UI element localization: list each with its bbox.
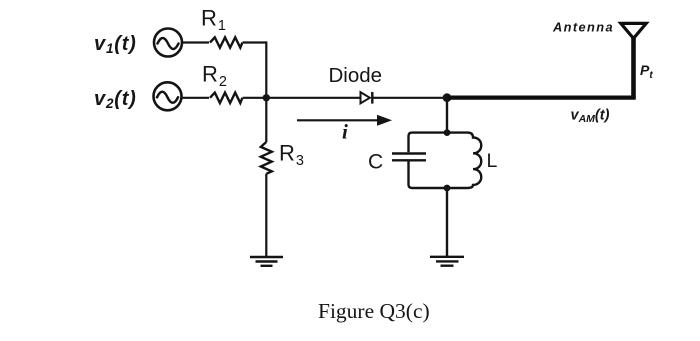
wire V1 to R1 (182, 41, 209, 43)
resistor R1 (210, 37, 242, 47)
svg-text:Diode: Diode (329, 64, 383, 87)
wire diode to node B (372, 97, 447, 99)
wire tank to ground (446, 188, 448, 256)
wire node B down to tank (446, 98, 448, 133)
resistor R2 (210, 93, 242, 103)
wire R1 to corner (243, 41, 267, 43)
svg-text:Pt: Pt (640, 62, 653, 81)
thick wire node B to antenna (447, 95, 636, 99)
wire corner down to node (265, 41, 267, 97)
wire V2 to R2 (182, 97, 210, 99)
wire R2 to diode (243, 97, 361, 99)
svg-text:R1: R1 (201, 6, 226, 35)
current arrow i (297, 115, 392, 126)
svg-text:Figure Q3(c): Figure Q3(c) (318, 299, 430, 323)
ground (right) (430, 257, 464, 266)
antenna triangle (621, 23, 646, 38)
svg-text:R2: R2 (202, 62, 227, 91)
inductor L coil (447, 133, 481, 188)
svg-text:i: i (342, 120, 348, 144)
wire R3 to ground (265, 174, 267, 256)
ground (left) (250, 257, 283, 266)
node B dot (443, 93, 452, 102)
diode D1 (361, 92, 373, 104)
source V2 (154, 82, 182, 110)
svg-text:Antenna: Antenna (552, 20, 614, 35)
wire node A down to R3 (265, 98, 267, 142)
resistor R3 (261, 142, 272, 174)
capacitor C plates (392, 154, 426, 161)
svg-text:L: L (487, 150, 498, 172)
node A junction dot (263, 94, 270, 101)
tank top junction dot (444, 129, 451, 136)
antenna mast (631, 38, 636, 99)
svg-text:v1(t): v1(t) (94, 33, 137, 56)
svg-text:R3: R3 (279, 141, 304, 170)
svg-text:v2(t): v2(t) (94, 88, 137, 111)
source V1 (154, 29, 182, 57)
tank left rail + corners (409, 133, 448, 188)
svg-text:vAM(t): vAM(t) (571, 108, 610, 126)
svg-text:C: C (368, 151, 383, 174)
tank bottom junction dot (444, 185, 451, 192)
